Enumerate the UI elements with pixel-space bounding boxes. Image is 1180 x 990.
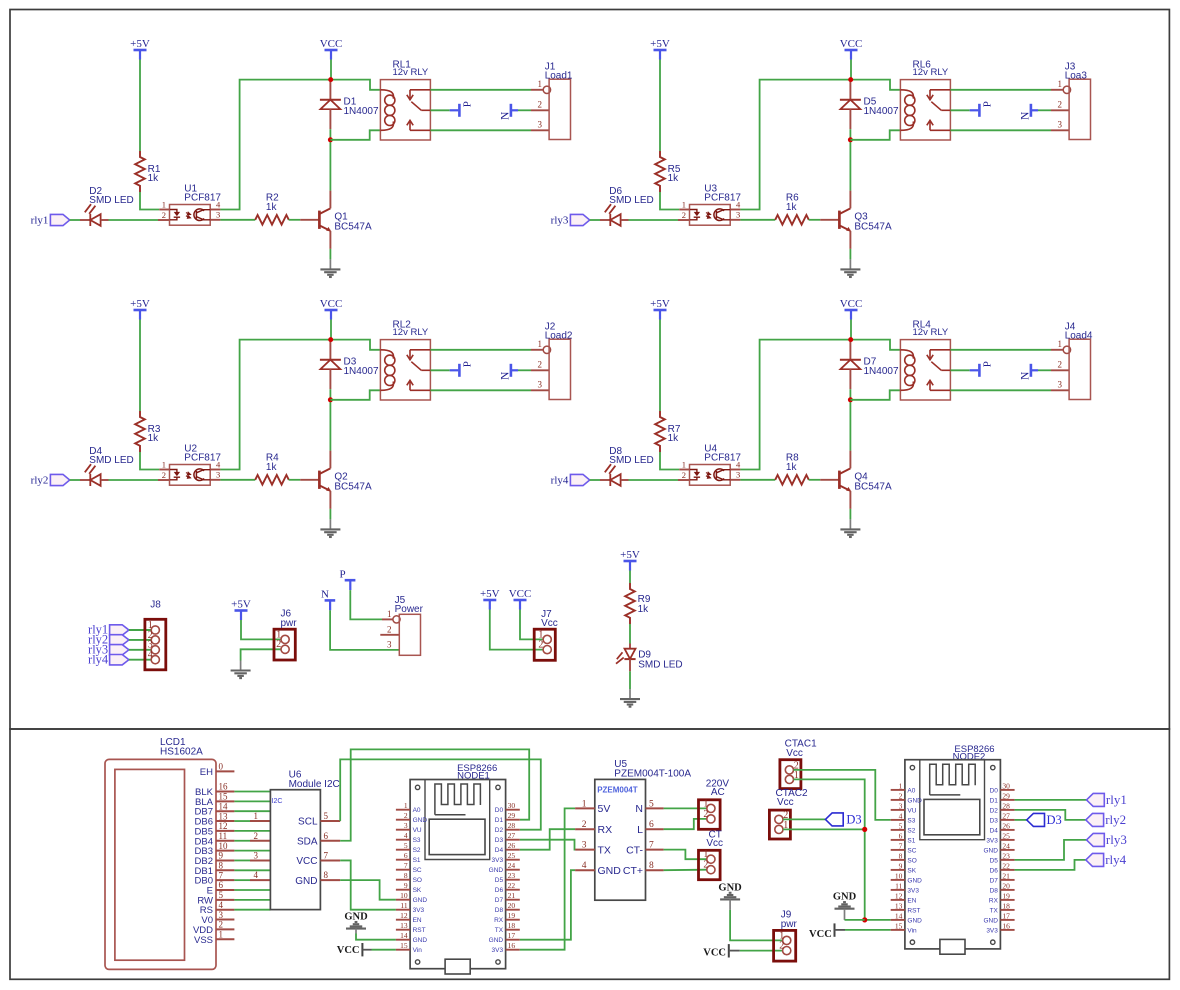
wire LCD RW to U6 <box>234 899 270 901</box>
U6 pin 6 (SDA) <box>320 840 340 842</box>
svg-text:Vcc: Vcc <box>706 838 723 849</box>
U5 pin 7 (CT-) <box>646 849 664 851</box>
svg-text:rly4: rly4 <box>88 652 109 666</box>
svg-text:SMD LED: SMD LED <box>638 660 682 671</box>
LCD1 pin 15 (BLA) <box>216 800 234 802</box>
svg-text:3: 3 <box>582 841 587 851</box>
svg-text:6: 6 <box>649 820 654 830</box>
svg-text:rly2: rly2 <box>1105 812 1126 827</box>
J9 pin 2 <box>783 947 791 955</box>
svg-text:VCC: VCC <box>337 945 360 956</box>
svg-text:BC547A: BC547A <box>854 481 892 492</box>
J9 pin 1 <box>783 936 791 944</box>
relay driver circuit RL4 graphics <box>570 298 1090 537</box>
LCD1 pin 4 (RS) <box>216 909 234 911</box>
relay driver circuit RL6 graphics <box>570 38 1090 277</box>
svg-text:D6: D6 <box>609 186 622 197</box>
svg-text:PCF817: PCF817 <box>704 452 741 463</box>
U5 pin 4 (GND) <box>575 869 595 871</box>
LCD1 pin 16 (BLK) <box>216 791 234 793</box>
svg-text:rly3: rly3 <box>551 214 569 226</box>
svg-text:rly4: rly4 <box>551 474 569 486</box>
svg-text:8: 8 <box>649 861 654 871</box>
wire J6 pin2 to ground <box>241 649 281 660</box>
U5 pin 2 (RX) <box>575 828 595 830</box>
svg-text:+5V: +5V <box>231 599 251 611</box>
svg-text:NODE2: NODE2 <box>953 751 986 762</box>
connector CTAC1 box <box>780 760 801 789</box>
svg-text:3: 3 <box>219 910 224 920</box>
P supply (J5) <box>345 579 356 582</box>
wire LCD DB7 to U6 <box>234 810 270 812</box>
svg-text:rly1: rly1 <box>31 214 49 226</box>
CTAC1 pin 2 <box>785 766 793 774</box>
wire CTAC2 pin1 to GND net <box>783 828 865 830</box>
U5 pin 3 (TX) <box>575 849 595 851</box>
wire N to J5 pin3 <box>330 610 399 650</box>
ground symbol (J6) <box>240 661 242 671</box>
wire LCD BLA to U6 <box>234 800 270 802</box>
svg-text:2: 2 <box>582 820 587 830</box>
svg-text:2: 2 <box>703 860 708 871</box>
svg-text:D5: D5 <box>864 96 877 107</box>
wire U6 SDA to NODE1 D1 <box>340 749 529 840</box>
wire +5V to J7 pin2 <box>490 610 543 650</box>
wire U5 GND to NODE1 GND(17) <box>520 870 575 940</box>
+5V supply (J7) <box>483 599 496 602</box>
U5 pin 1 (5V) <box>575 807 595 809</box>
svg-text:PZEM004T: PZEM004T <box>597 786 638 795</box>
svg-text:D8: D8 <box>609 446 622 457</box>
svg-text:BC547A: BC547A <box>854 221 892 232</box>
U5 pin 6 (L) <box>646 828 664 830</box>
svg-text:RL1: RL1 <box>393 59 412 70</box>
svg-text:CT-: CT- <box>626 844 643 856</box>
wire +5V to R9 <box>629 571 631 584</box>
LCD1 pin 14 (DB7) <box>216 810 234 812</box>
LCD1 pin 8 (DB1) <box>216 869 234 871</box>
svg-text:PCF817: PCF817 <box>184 452 221 463</box>
wire +5V to J6 pin1 <box>241 620 281 639</box>
wire LCD DB1 to U6 <box>234 869 270 871</box>
svg-text:7: 7 <box>324 850 329 860</box>
svg-text:+5V: +5V <box>620 549 640 561</box>
connector J9 box <box>774 930 796 961</box>
net port D3 (right) <box>1027 813 1045 826</box>
svg-text:rly1: rly1 <box>1106 792 1127 807</box>
LCD1 pin 5 (RW) <box>216 899 234 901</box>
connector CT box <box>699 850 721 879</box>
port rly2 <box>1086 813 1104 826</box>
VCC supply (J7) <box>514 599 527 602</box>
svg-text:Vcc: Vcc <box>541 618 558 629</box>
svg-text:6: 6 <box>324 831 329 841</box>
LCD1 pin 13 (DB6) <box>216 820 234 822</box>
220V pin 1 <box>707 804 715 812</box>
LCD1 pin 2 (VDD) <box>216 928 234 930</box>
svg-text:16: 16 <box>219 782 229 792</box>
svg-text:PZEM004T-100A: PZEM004T-100A <box>614 768 691 779</box>
LCD1 pin 3 (V0) <box>216 919 234 921</box>
svg-text:D7: D7 <box>864 356 877 367</box>
svg-text:5: 5 <box>324 811 329 821</box>
svg-text:1k: 1k <box>638 604 650 615</box>
U6 pin 7 (VCC) <box>320 859 340 861</box>
wire U6 VCC to NODE1 3V3(11) <box>340 860 396 909</box>
svg-text:Module I2C: Module I2C <box>289 779 340 790</box>
svg-text:4: 4 <box>219 900 224 910</box>
connector J6 box <box>274 629 295 660</box>
svg-text:+5V: +5V <box>480 588 500 600</box>
J7 pin 2 <box>543 646 551 654</box>
svg-text:3: 3 <box>387 640 392 650</box>
port rly3 <box>110 645 129 655</box>
svg-text:D2: D2 <box>89 186 102 197</box>
svg-text:J8: J8 <box>150 599 161 610</box>
CTAC2 pin 1 <box>775 825 783 833</box>
wire rly3 to J8 pin3 <box>129 649 151 651</box>
svg-text:EH: EH <box>200 767 213 778</box>
svg-text:5V: 5V <box>598 803 611 815</box>
wire R9 to D9 <box>629 624 631 644</box>
resistor R9 <box>625 583 635 624</box>
svg-text:VSS: VSS <box>194 935 213 946</box>
junction GND net (upper) <box>862 827 867 832</box>
wire LCD DB6 to U6 pin1 <box>234 820 250 822</box>
svg-text:RX: RX <box>598 824 613 836</box>
port rly4 <box>110 655 129 665</box>
LCD1 pin 9 (DB2) <box>216 859 234 861</box>
svg-text:P: P <box>340 569 346 581</box>
svg-text:D3: D3 <box>344 356 357 367</box>
svg-text:PCF817: PCF817 <box>184 192 221 203</box>
svg-text:4: 4 <box>582 861 587 871</box>
svg-text:1: 1 <box>703 798 708 809</box>
wire rly2 to J8 pin2 <box>129 639 151 641</box>
schematic sheet frame (bottom) <box>10 729 1169 979</box>
J8 pin 1 <box>151 626 159 634</box>
wire CTAC1 pin1 / CTAC2 pin1 / GND to NODE2 GND(14) <box>794 779 891 920</box>
wire NODE2 D5 to rly3 <box>1015 840 1087 860</box>
svg-text:rly2: rly2 <box>31 474 49 486</box>
svg-text:CT+: CT+ <box>623 865 643 877</box>
+5V supply (R9) <box>624 560 637 563</box>
svg-text:RL2: RL2 <box>393 319 412 330</box>
LCD1 pin 11 (DB4) <box>216 840 234 842</box>
connector CTAC2 box <box>769 810 790 839</box>
wire U5 N to 220V pin1 <box>664 807 707 809</box>
port rly1 (out) <box>1087 793 1105 806</box>
LCD1 pin 12 (DB5) <box>216 830 234 832</box>
svg-text:SCL: SCL <box>298 817 318 828</box>
wire U6 SCL to NODE1 D2 <box>340 759 541 829</box>
+5V supply (J6) <box>235 609 248 612</box>
wire LCD DB4 to U6 pin2 <box>234 840 250 842</box>
J5 pin2 stub <box>380 634 399 636</box>
LCD1 pin 0 (EH) <box>216 770 234 772</box>
wire NODE2 D6 to rly4 <box>1015 860 1086 870</box>
svg-text:D4: D4 <box>89 446 102 457</box>
svg-text:D3: D3 <box>1047 813 1062 827</box>
svg-text:R4: R4 <box>266 452 279 463</box>
svg-text:Load2: Load2 <box>545 330 573 341</box>
svg-text:rly3: rly3 <box>1106 832 1127 847</box>
svg-text:AC: AC <box>711 787 725 798</box>
svg-text:R7: R7 <box>668 424 681 435</box>
svg-text:GND: GND <box>295 876 317 887</box>
svg-text:R5: R5 <box>668 164 681 175</box>
svg-text:L: L <box>637 824 643 836</box>
schematic sheet frame (top) <box>10 10 1169 730</box>
connector J8 box <box>145 619 166 670</box>
svg-text:R6: R6 <box>786 192 799 203</box>
J8 pin 3 <box>151 646 159 654</box>
relay driver circuit RL1 graphics <box>50 38 570 277</box>
U5 pin 8 (CT+) <box>646 869 664 871</box>
wire CTAC2 pin2 to D3 port <box>783 818 825 820</box>
U6 box <box>270 790 320 910</box>
ESP8266 NODE1 module <box>396 780 520 975</box>
svg-text:GND: GND <box>598 865 622 877</box>
svg-text:13: 13 <box>219 811 229 821</box>
LCD1 pin 1 (VSS) <box>216 938 234 940</box>
svg-text:2: 2 <box>254 831 259 841</box>
J6 pin 1 <box>281 635 289 643</box>
J5 pin1 stub + circle <box>382 618 393 620</box>
svg-text:Vcc: Vcc <box>786 748 803 759</box>
ESP8266 NODE2 module <box>891 760 1015 955</box>
svg-text:14: 14 <box>219 801 229 811</box>
svg-text:1: 1 <box>703 849 708 860</box>
svg-text:I2C: I2C <box>272 798 283 805</box>
svg-text:Load1: Load1 <box>545 70 573 81</box>
wire D9 to ground <box>629 671 631 689</box>
svg-text:D3: D3 <box>846 813 861 827</box>
net port D3 (left) <box>825 813 843 826</box>
svg-text:2: 2 <box>219 920 224 930</box>
svg-text:5: 5 <box>219 890 224 900</box>
CT pin 1 <box>707 855 715 863</box>
wire NODE2 D3 to D3 port <box>1015 819 1027 821</box>
svg-text:9: 9 <box>219 851 224 861</box>
LCD1 pin 10 (DB3) <box>216 850 234 852</box>
wire LCD DB0 to U6 pin4 <box>234 879 250 881</box>
wire NODE2 D1 to rly1 <box>1015 799 1087 801</box>
svg-text:N: N <box>321 589 329 601</box>
svg-text:2: 2 <box>703 809 708 820</box>
port rly2 <box>110 635 129 645</box>
svg-text:N: N <box>635 803 643 815</box>
svg-text:R3: R3 <box>148 424 161 435</box>
svg-text:rly4: rly4 <box>1105 852 1126 867</box>
J8 pin 2 <box>151 636 159 644</box>
svg-text:11: 11 <box>219 831 228 841</box>
port rly3 <box>1087 833 1105 846</box>
svg-text:5: 5 <box>649 799 654 809</box>
J6 pin 2 <box>281 645 289 653</box>
wire U6 GND to NODE1 GND(10) <box>340 880 396 900</box>
CTAC2 pin 2 <box>775 815 783 823</box>
svg-text:2: 2 <box>779 941 784 952</box>
svg-text:8: 8 <box>324 870 329 880</box>
svg-text:HS1602A: HS1602A <box>160 747 203 758</box>
connector 220V AC box <box>699 800 721 830</box>
svg-text:RL4: RL4 <box>913 319 932 330</box>
relay driver circuit RL2 graphics <box>50 298 570 537</box>
wire LCD DB2 to U6 pin3 <box>234 859 250 861</box>
wire NODE1 D3 to U5 TX <box>520 840 575 850</box>
svg-text:RL6: RL6 <box>913 59 932 70</box>
svg-text:1: 1 <box>219 929 224 939</box>
svg-text:BC547A: BC547A <box>334 481 372 492</box>
wire U5 L to 220V pin2 <box>664 819 707 829</box>
svg-text:TX: TX <box>598 844 611 856</box>
J7 pin 1 <box>543 635 551 643</box>
svg-text:1: 1 <box>254 811 259 821</box>
connector J5 box <box>399 614 420 655</box>
wire U5 5V to NODE1 3V3(16) <box>520 808 575 949</box>
svg-text:7: 7 <box>649 841 654 851</box>
J8 pin 4 <box>151 656 159 664</box>
U5 pin 5 (N) <box>646 807 664 809</box>
wire NODE2 D2 to rly2 <box>1015 810 1086 820</box>
svg-text:3: 3 <box>254 850 259 860</box>
U6 pin 5 (SCL) <box>320 820 340 822</box>
wire VCC to J7 pin1 <box>520 610 543 640</box>
CTAC1 pin 1 <box>785 775 793 783</box>
LCD1 pin 7 (DB0) <box>216 879 234 881</box>
junction GND net (lower) <box>862 917 867 922</box>
svg-text:VCC: VCC <box>296 856 317 867</box>
svg-text:VCC: VCC <box>809 929 832 940</box>
svg-text:10: 10 <box>219 841 229 851</box>
wire LCD BLK to U6 <box>234 791 270 793</box>
wire rly4 to J8 pin4 <box>129 659 151 661</box>
svg-text:2: 2 <box>538 640 543 651</box>
wire LCD RS to U6 <box>234 909 270 911</box>
wire P to J5 pin1 <box>350 590 382 619</box>
wire U5 CT- to CT pin1 <box>664 850 707 860</box>
wire U5 CT+ to CT pin2 <box>664 869 707 872</box>
svg-text:15: 15 <box>219 792 229 802</box>
wire rly1 to J8 pin1 <box>129 629 151 631</box>
svg-text:R8: R8 <box>786 452 799 463</box>
connector J7 box <box>534 629 555 660</box>
svg-text:1: 1 <box>387 609 392 619</box>
svg-text:Vcc: Vcc <box>777 797 794 808</box>
svg-text:Power: Power <box>395 604 424 615</box>
port rly4 <box>1086 853 1104 866</box>
CT pin 2 <box>707 866 715 874</box>
svg-text:4: 4 <box>254 870 259 880</box>
svg-text:R2: R2 <box>266 192 279 203</box>
svg-text:PCF817: PCF817 <box>704 192 741 203</box>
svg-text:1: 1 <box>582 799 587 809</box>
svg-text:BC547A: BC547A <box>334 221 372 232</box>
LCD1 pin 6 (E) <box>216 889 234 891</box>
wire LCD DB3 to U6 <box>234 850 270 852</box>
svg-text:0: 0 <box>219 762 224 772</box>
svg-text:GND: GND <box>344 912 368 923</box>
LCD1 screen <box>115 769 185 960</box>
U6 pin 8 (GND) <box>320 879 340 881</box>
svg-text:R1: R1 <box>148 164 161 175</box>
svg-text:pwr: pwr <box>781 919 798 930</box>
LCD1 display outline <box>105 759 216 969</box>
svg-text:8: 8 <box>219 861 224 871</box>
svg-text:12: 12 <box>219 821 228 831</box>
svg-text:SDA: SDA <box>297 836 318 847</box>
svg-text:2: 2 <box>276 639 281 650</box>
ground symbol (D9) <box>629 689 631 699</box>
svg-text:2: 2 <box>387 624 392 634</box>
svg-text:Loa3: Loa3 <box>1065 70 1088 81</box>
wire LCD DB5 to U6 <box>234 830 270 832</box>
220V pin 2 <box>707 815 715 823</box>
svg-text:D1: D1 <box>344 96 357 107</box>
U5 box <box>595 779 646 900</box>
wire CTAC1 pin2 to NODE2 S3 <box>794 770 891 820</box>
svg-text:4: 4 <box>148 650 153 661</box>
N supply (J5) <box>325 599 336 602</box>
svg-text:pwr: pwr <box>281 618 298 629</box>
svg-text:7: 7 <box>219 870 224 880</box>
svg-text:VCC: VCC <box>703 948 726 959</box>
wire LCD E to U6 <box>234 889 270 891</box>
wire NODE1 D4 to U5 RX <box>520 829 575 850</box>
port rly1 <box>110 625 129 635</box>
LED D9 <box>629 644 631 649</box>
svg-text:Load4: Load4 <box>1065 330 1093 341</box>
svg-text:6: 6 <box>219 880 224 890</box>
svg-text:VCC: VCC <box>509 588 532 600</box>
